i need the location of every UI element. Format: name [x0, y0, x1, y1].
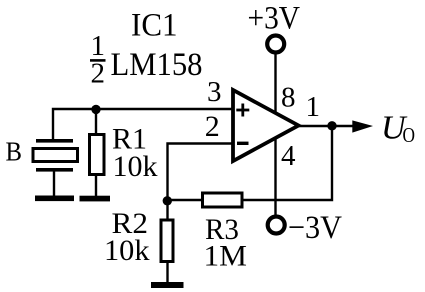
op-amp minus input marker — [237, 142, 249, 145]
wire — [53, 109, 233, 139]
svg-text:+3V: +3V — [248, 1, 301, 37]
ground (R1) — [80, 196, 111, 202]
svg-text:LM158: LM158 — [111, 47, 203, 83]
svg-text:O: O — [403, 123, 416, 147]
svg-text:10k: 10k — [104, 234, 150, 267]
node junction at R2 top — [163, 196, 172, 205]
wire — [95, 109, 97, 134]
ground (R2) — [151, 282, 184, 288]
output arrow — [352, 120, 373, 132]
resistor R3 — [203, 193, 243, 207]
resistor R1 — [90, 135, 105, 175]
wire — [95, 176, 97, 196]
node junction at output — [327, 121, 336, 130]
svg-text:10k: 10k — [113, 150, 158, 183]
wire — [53, 171, 55, 196]
svg-text:1: 1 — [306, 91, 321, 123]
label 1/2 fraction — [90, 30, 106, 90]
svg-text:4: 4 — [281, 140, 296, 172]
label Uo output — [381, 110, 415, 148]
resistor R2 — [161, 220, 173, 262]
wire — [274, 54, 276, 114]
svg-text:1M: 1M — [204, 240, 248, 273]
svg-text:2: 2 — [205, 110, 220, 143]
terminal +3V — [267, 36, 284, 53]
svg-text:8: 8 — [281, 82, 296, 114]
svg-text:3: 3 — [207, 76, 222, 108]
wire — [168, 199, 203, 201]
wire — [298, 125, 354, 127]
svg-text:2: 2 — [91, 58, 106, 90]
svg-text:−3V: −3V — [288, 210, 342, 246]
wire — [166, 262, 168, 283]
piezo element B — [33, 139, 78, 172]
op-amp plus input marker — [236, 104, 249, 117]
wire — [243, 126, 332, 200]
svg-text:IC1: IC1 — [131, 8, 178, 44]
wire — [274, 138, 276, 216]
op-amp U1 triangle — [233, 90, 299, 161]
node junction at R1 top — [91, 105, 100, 114]
ground (B) — [35, 196, 74, 202]
wire — [168, 144, 234, 220]
svg-text:B: B — [6, 137, 23, 167]
terminal -3V — [268, 217, 285, 234]
